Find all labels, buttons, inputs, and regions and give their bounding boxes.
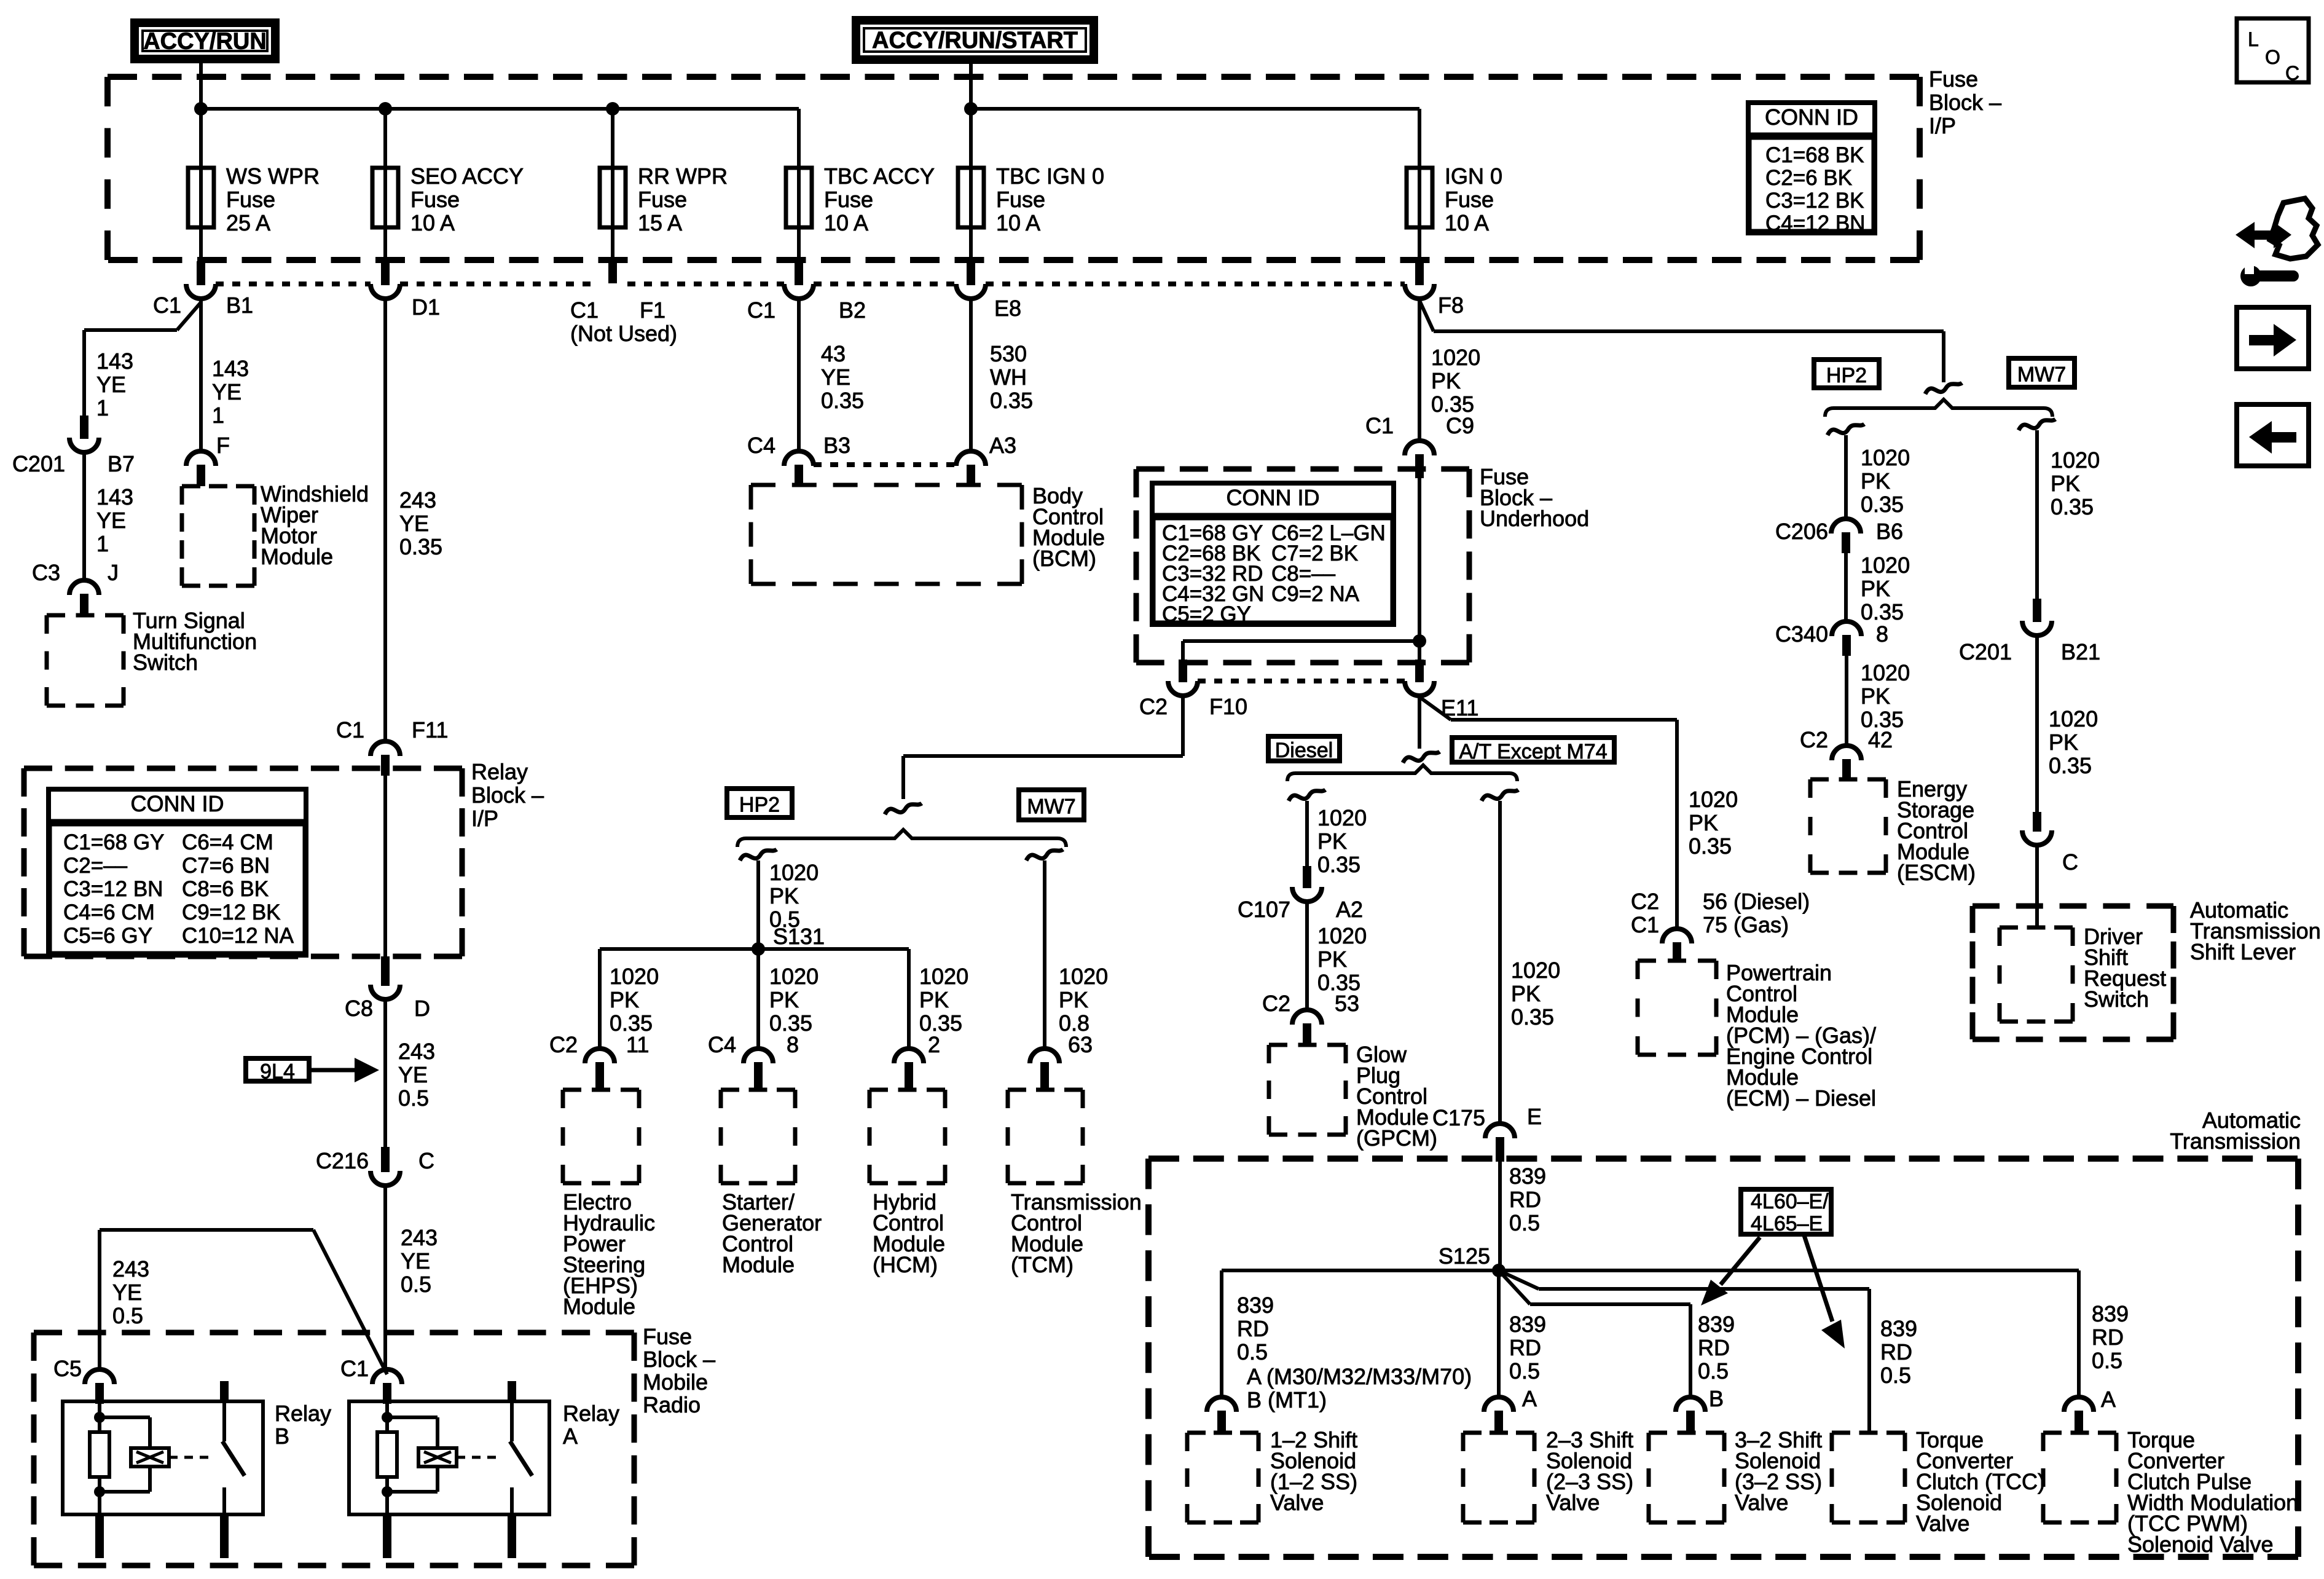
svg-text:C1: C1 [153, 293, 181, 318]
label Automatic Transmission Shift Lever [2190, 897, 2321, 964]
svg-text:C340: C340 [1775, 621, 1828, 647]
connector F (wiper motor module) [186, 433, 230, 486]
connector C201/B7 [12, 415, 135, 476]
svg-text:243: 243 [399, 487, 436, 513]
option label box MW7 (right) [2009, 358, 2075, 387]
svg-text:Fuse: Fuse [410, 187, 460, 212]
option splice brace (right) [1825, 400, 2052, 417]
connector C4/B3 (BCM) [747, 433, 850, 486]
wire 143 YE 1 below C201 [84, 452, 133, 580]
module Body Control Module BCM [751, 483, 1105, 584]
wire 1020 PK 0.35 to EHPS [600, 949, 659, 1049]
svg-text:B21: B21 [2061, 639, 2100, 664]
reference tag 4L60-E/4L65-E [1741, 1189, 1831, 1235]
svg-text:RD: RD [1509, 1335, 1541, 1360]
wire label 243 YE 0.5 (C5 branch) [112, 1256, 149, 1328]
svg-text:Solenoid Valve: Solenoid Valve [2127, 1532, 2274, 1557]
wire S125 to 2-3 shift solenoid [1499, 1270, 1546, 1411]
junction node on bus at RR WPR [606, 102, 619, 116]
page reference LOC box [2237, 18, 2309, 84]
svg-text:YE: YE [401, 1248, 430, 1274]
fuse RR WPR 15 A [600, 109, 728, 261]
svg-text:839: 839 [1698, 1312, 1735, 1337]
svg-text:C1: C1 [336, 717, 364, 742]
svg-text:C: C [418, 1148, 434, 1173]
connector B (3-2 shift solenoid) [1676, 1397, 1705, 1433]
svg-text:1020: 1020 [1861, 660, 1910, 685]
wire 1020 PK 0.35 to starter generator module [758, 949, 819, 1049]
svg-text:SEO ACCY: SEO ACCY [410, 163, 524, 189]
svg-text:B3: B3 [823, 433, 850, 458]
svg-text:HP2: HP2 [1826, 364, 1867, 387]
svg-text:9L4: 9L4 [260, 1060, 295, 1084]
wire 530 WH 0.35 from E8 [971, 299, 1033, 451]
svg-text:A: A [1522, 1386, 1537, 1411]
wire S131 horizontal [600, 947, 909, 951]
svg-text:1020: 1020 [2049, 706, 2098, 731]
svg-text:C2=––: C2=–– [63, 854, 128, 878]
wire break AT branch [1482, 790, 1518, 801]
svg-text:F: F [216, 433, 230, 458]
svg-text:YE: YE [112, 1280, 142, 1305]
svg-text:0.35: 0.35 [399, 534, 442, 559]
svg-text:Valve: Valve [1546, 1490, 1600, 1515]
wire label 143 YE 1 (B1 wire) [212, 356, 249, 428]
svg-text:Relay: Relay [471, 759, 528, 784]
svg-text:839: 839 [1237, 1293, 1274, 1318]
svg-text:53: 53 [1335, 991, 1359, 1016]
label Fuse Block - I/P [1929, 66, 2001, 138]
svg-text:1020: 1020 [1317, 923, 1367, 948]
svg-text:F1: F1 [640, 297, 665, 323]
fuse TBC IGN 0 10 A [958, 109, 1104, 261]
svg-text:I/P: I/P [471, 806, 498, 831]
svg-text:0.5: 0.5 [1509, 1210, 1540, 1235]
svg-text:0.35: 0.35 [1317, 852, 1360, 877]
svg-text:Block –: Block – [643, 1347, 715, 1372]
svg-text:C9=12 BK: C9=12 BK [182, 900, 281, 924]
svg-text:C2: C2 [1139, 694, 1168, 719]
svg-text:0.35: 0.35 [1861, 492, 1904, 517]
svg-text:C2: C2 [1800, 727, 1828, 752]
svg-text:1020: 1020 [1059, 964, 1108, 989]
svg-text:RR WPR: RR WPR [638, 163, 728, 189]
svg-text:TBC IGN 0: TBC IGN 0 [996, 163, 1104, 189]
label Fuse Block - Underhood [1480, 464, 1589, 531]
wire 1020 PK 0.35 to C206 [1846, 435, 1910, 520]
option splice brace (diesel / AT) [1287, 765, 1517, 781]
svg-text:Diesel: Diesel [1275, 739, 1333, 762]
svg-text:C8: C8 [345, 996, 373, 1021]
wire inside underhood block [1418, 478, 1421, 660]
svg-text:MW7: MW7 [2017, 363, 2066, 387]
wire break HP2 branch (middle) [740, 849, 777, 860]
svg-text:0.35: 0.35 [1511, 1004, 1554, 1030]
svg-text:WS WPR: WS WPR [226, 163, 320, 189]
svg-text:(GPCM): (GPCM) [1356, 1125, 1437, 1151]
svg-text:(ESCM): (ESCM) [1897, 860, 1976, 885]
svg-text:75 (Gas): 75 (Gas) [1703, 912, 1789, 937]
connector C216/C [316, 1147, 434, 1186]
wire F8 branch to HP2/MW7 splice [1419, 301, 1944, 382]
connector C175/E [1432, 1104, 1542, 1162]
splice S131 [752, 924, 825, 956]
svg-text:C9: C9 [1446, 413, 1474, 438]
svg-text:YE: YE [96, 508, 126, 533]
svg-text:Switch: Switch [133, 650, 198, 675]
switch Driver Shift Request Switch box [2000, 924, 2166, 1022]
svg-text:Block –: Block – [1929, 90, 2001, 115]
svg-text:(Not Used): (Not Used) [570, 321, 677, 346]
svg-text:25 A: 25 A [226, 210, 270, 235]
svg-text:0.35: 0.35 [1861, 599, 1904, 624]
svg-text:C201: C201 [12, 451, 65, 476]
svg-text:1020: 1020 [1861, 553, 1910, 578]
svg-text:0.35: 0.35 [990, 388, 1033, 413]
svg-text:C3: C3 [32, 560, 60, 585]
svg-text:RD: RD [1509, 1187, 1541, 1212]
svg-text:ACCY/RUN: ACCY/RUN [143, 29, 267, 55]
connector D1 (SEO ACCY output) [371, 261, 440, 320]
svg-text:839: 839 [1509, 1312, 1546, 1337]
svg-text:C7=6 BN: C7=6 BN [182, 854, 270, 878]
svg-text:1020: 1020 [2051, 447, 2100, 473]
label Automatic Transmission [2170, 1108, 2301, 1154]
svg-text:RD: RD [1237, 1316, 1269, 1341]
svg-text:0.5: 0.5 [1880, 1363, 1911, 1388]
wire 1020 PK 0.35 to C [2037, 636, 2098, 812]
connector C5 (relay B) [53, 1356, 114, 1404]
module Energy Storage Control Module ESCM [1810, 776, 1976, 885]
svg-text:Valve: Valve [1916, 1511, 1969, 1536]
svg-text:C2: C2 [1262, 991, 1290, 1016]
svg-text:Relay: Relay [275, 1401, 331, 1426]
module Transmission Control Module TCM [1008, 1090, 1142, 1277]
svg-text:Module: Module [261, 544, 333, 569]
svg-text:63: 63 [1068, 1032, 1093, 1057]
svg-text:243: 243 [112, 1256, 149, 1282]
module Turn Signal Multifunction Switch [47, 608, 257, 706]
svg-text:C216: C216 [316, 1148, 369, 1173]
svg-text:C175: C175 [1432, 1105, 1485, 1130]
module Powertrain Control Module PCM/ECM [1638, 960, 1876, 1111]
svg-text:C4: C4 [747, 433, 775, 458]
svg-text:E: E [1527, 1104, 1542, 1129]
CONN ID table (fuse block I/P) [1746, 103, 1877, 235]
option label box Diesel [1268, 736, 1340, 762]
wire 1020 PK 0.8 to TCM [1045, 860, 1108, 1049]
svg-text:C5=6 GY: C5=6 GY [63, 924, 152, 948]
option label box HP2 (right) [1814, 360, 1879, 388]
svg-text:1020: 1020 [1317, 805, 1367, 830]
svg-text:0.35: 0.35 [2049, 753, 2092, 778]
wire 1020 PK 0.35 to C107 [1307, 801, 1367, 877]
connector E8 (TBC IGN 0 output) [956, 261, 1021, 321]
svg-text:530: 530 [990, 341, 1027, 366]
svg-text:YE: YE [821, 364, 850, 390]
wire branch to relay B C5 [100, 1230, 387, 1374]
svg-text:B6: B6 [1876, 519, 1903, 544]
connector C340/8 [1775, 621, 1888, 656]
svg-text:Valve: Valve [1735, 1490, 1788, 1515]
svg-text:PK: PK [1861, 683, 1890, 709]
svg-text:8: 8 [787, 1032, 799, 1057]
connector E11 (underhood output) [1405, 660, 1478, 720]
svg-text:MW7: MW7 [1027, 795, 1075, 819]
connector C206/B6 [1775, 519, 1903, 553]
svg-text:C9=2 NA: C9=2 NA [1271, 582, 1360, 606]
svg-text:IGN 0: IGN 0 [1445, 163, 1502, 189]
CONN ID table (relay block I/P) [46, 789, 308, 955]
wire F10 to option splice [903, 696, 1183, 799]
connector A/B (1-2 shift solenoid) [1207, 1397, 1236, 1433]
wire 243 YE 0.5 from C216 to relay A C1 [385, 1186, 438, 1371]
junction node on bus at SEO ACCY [379, 102, 392, 116]
wire label 1020 PK 0.35 (PCM branch) [1689, 787, 1738, 859]
fuse block I/P dashed box [108, 77, 1920, 260]
svg-text:Module: Module [722, 1252, 795, 1277]
wire E11 branch to PCM [1419, 697, 1677, 929]
connector C4/8 (starter generator control module) [708, 1032, 799, 1090]
label Relay Block - I/P [471, 759, 544, 831]
svg-text:C201: C201 [1959, 639, 2012, 664]
svg-text:HP2: HP2 [739, 793, 780, 817]
svg-text:1020: 1020 [1689, 787, 1738, 812]
svg-text:1020: 1020 [769, 860, 819, 885]
svg-text:C4=6 CM: C4=6 CM [63, 900, 155, 924]
svg-text:B7: B7 [108, 451, 135, 476]
wire break above right splice [1925, 383, 1962, 394]
connector C3/J [32, 560, 119, 615]
connector C1 (relay A) [340, 1356, 402, 1404]
svg-text:B: B [1709, 1386, 1724, 1411]
svg-text:Fuse: Fuse [226, 187, 275, 212]
wire S125 to TCC PWM solenoid [1499, 1270, 2129, 1412]
svg-text:A/T Except M74: A/T Except M74 [1459, 740, 1607, 763]
svg-text:C4=12 BN: C4=12 BN [1765, 211, 1865, 235]
svg-text:PK: PK [769, 883, 799, 908]
fuse block underhood dashed box [1136, 469, 1469, 663]
svg-text:A2: A2 [1336, 897, 1363, 922]
svg-text:1: 1 [96, 395, 109, 420]
dotted line between B3 and A3 [814, 462, 956, 467]
svg-text:F8: F8 [1438, 293, 1464, 318]
wire break MW7 branch (middle) [1026, 849, 1063, 860]
module 3-2 Shift Solenoid Valve [1649, 1427, 1822, 1522]
connector C8/D (relay block output) [345, 956, 430, 1021]
svg-text:PK: PK [1317, 947, 1347, 972]
svg-text:A (M30/M32/M33/M70): A (M30/M32/M33/M70) [1247, 1364, 1472, 1389]
connector C (shift lever) [2022, 812, 2078, 875]
junction node on bus at WS WPR [194, 102, 208, 116]
svg-text:E8: E8 [994, 296, 1021, 321]
module TCC PWM Solenoid Valve [2043, 1427, 2298, 1557]
power feed box ACCY/RUN/START [856, 20, 1094, 60]
svg-text:1020: 1020 [1511, 958, 1560, 983]
svg-text:RD: RD [1698, 1335, 1730, 1360]
svg-text:C10=12 NA: C10=12 NA [182, 924, 294, 948]
automatic transmission shift lever dashed box [1973, 906, 2173, 1039]
svg-text:0.5: 0.5 [1698, 1358, 1729, 1384]
svg-text:1: 1 [212, 403, 224, 428]
connector 2 (HCM) [894, 1032, 940, 1090]
svg-text:8: 8 [1876, 621, 1888, 647]
module 1-2 Shift Solenoid Valve [1187, 1427, 1357, 1522]
svg-text:1020: 1020 [1431, 345, 1480, 370]
svg-text:0.5: 0.5 [398, 1085, 429, 1111]
svg-text:143: 143 [96, 348, 133, 374]
diagnostic wrench icon [2236, 199, 2318, 286]
svg-text:Transmission: Transmission [2170, 1128, 2301, 1154]
svg-text:PK: PK [1317, 829, 1347, 854]
svg-text:PK: PK [1431, 368, 1461, 393]
module 2-3 Shift Solenoid Valve [1463, 1427, 1633, 1522]
svg-text:J: J [108, 560, 119, 585]
wire 143 YE from B1 down to F [199, 299, 203, 451]
svg-text:0.35: 0.35 [821, 388, 864, 413]
svg-text:C2=6 BK: C2=6 BK [1765, 166, 1852, 190]
svg-text:1020: 1020 [1861, 445, 1910, 470]
power feed box ACCY/RUN [135, 23, 275, 59]
svg-text:B: B [275, 1423, 289, 1449]
svg-text:839: 839 [1880, 1316, 1917, 1341]
svg-text:B (MT1): B (MT1) [1247, 1387, 1327, 1412]
option label box MW7 (middle) [1019, 790, 1084, 820]
svg-text:PK: PK [1689, 810, 1718, 835]
svg-text:C1=68 GY: C1=68 GY [63, 830, 164, 854]
arrow 4L60 to TCC branch [1804, 1235, 1845, 1349]
svg-text:D1: D1 [412, 294, 440, 320]
svg-text:PK: PK [1861, 468, 1890, 494]
svg-text:Relay: Relay [563, 1401, 619, 1426]
CONN ID table (fuse block underhood) [1150, 483, 1396, 626]
wire 43 YE 0.35 from B2 [799, 299, 864, 451]
svg-text:O: O [2265, 46, 2280, 68]
svg-text:(TCM): (TCM) [1011, 1252, 1074, 1277]
connector C1/F11 (relay block I/P) [336, 717, 448, 776]
svg-text:C1: C1 [340, 1356, 369, 1381]
svg-text:ACCY/RUN/START: ACCY/RUN/START [872, 28, 1078, 53]
svg-text:F10: F10 [1209, 694, 1247, 719]
wire break above diesel splice [1403, 752, 1440, 763]
wire 1020 PK 0.35 to GPCM [1307, 902, 1367, 1010]
svg-text:15 A: 15 A [638, 210, 682, 235]
svg-text:143: 143 [212, 356, 249, 381]
svg-text:C: C [2062, 849, 2078, 875]
svg-text:RD: RD [1880, 1339, 1912, 1364]
wire E11 down to option splice [1418, 696, 1421, 749]
svg-text:YE: YE [399, 511, 429, 536]
module Starter/Generator Control Module [721, 1090, 822, 1277]
svg-text:11: 11 [626, 1032, 649, 1057]
svg-text:WH: WH [990, 364, 1027, 390]
backward page arrow box [2237, 404, 2309, 466]
svg-text:F11: F11 [412, 717, 448, 742]
svg-text:Fuse: Fuse [824, 187, 873, 212]
svg-text:Underhood: Underhood [1480, 506, 1589, 531]
wire 839 RD 0.5 from C175 to S125 [1500, 1162, 1546, 1270]
svg-text:4L65–E: 4L65–E [1751, 1212, 1823, 1235]
wire S125 to 1-2 shift solenoid [1222, 1270, 1499, 1412]
connector 63 (TCM) [1030, 1032, 1093, 1090]
svg-text:42: 42 [1868, 727, 1893, 752]
svg-text:0.5: 0.5 [401, 1272, 431, 1297]
svg-text:PK: PK [1059, 987, 1088, 1012]
svg-text:C2: C2 [549, 1032, 578, 1057]
svg-text:CONN ID: CONN ID [1765, 104, 1858, 130]
svg-text:L: L [2248, 28, 2259, 50]
svg-text:B1: B1 [226, 293, 253, 318]
wire break symbol above middle splice [885, 803, 922, 814]
forward page arrow box [2237, 307, 2309, 369]
svg-text:Fuse: Fuse [1929, 66, 1978, 92]
svg-text:0.5: 0.5 [1237, 1339, 1268, 1364]
svg-text:A3: A3 [989, 433, 1016, 458]
wire 1020 PK 0.35 from F8 to C9 [1419, 299, 1480, 442]
svg-text:4L60–E/: 4L60–E/ [1751, 1190, 1829, 1213]
svg-text:(BCM): (BCM) [1032, 546, 1096, 571]
svg-text:YE: YE [96, 372, 126, 397]
wire break HP2 branch (right) [1827, 424, 1864, 435]
svg-text:Fuse: Fuse [1445, 187, 1494, 212]
svg-text:C1: C1 [747, 297, 775, 323]
connector C107/A2 [1238, 866, 1363, 922]
wire branch B1 to C201 (diagonal) [84, 302, 201, 415]
svg-text:Mobile: Mobile [643, 1369, 708, 1395]
wire ACCY/RUN/START to bus [969, 64, 973, 109]
svg-text:C8=6 BK: C8=6 BK [182, 877, 269, 901]
connector C1/B2 (TBC ACCY output) [747, 261, 866, 323]
svg-text:0.35: 0.35 [2051, 494, 2094, 519]
splice S125 [1439, 1243, 1505, 1277]
svg-text:C1: C1 [1631, 912, 1659, 937]
svg-text:PK: PK [919, 987, 949, 1012]
svg-text:C6=4 CM: C6=4 CM [182, 830, 273, 854]
svg-text:C206: C206 [1775, 519, 1828, 544]
svg-text:(ECM) – Diesel: (ECM) – Diesel [1726, 1085, 1876, 1111]
svg-text:C4: C4 [708, 1032, 736, 1057]
wire S125 to TCC solenoid valve [1499, 1270, 1917, 1433]
svg-text:PK: PK [769, 987, 799, 1012]
svg-text:(HCM): (HCM) [873, 1252, 938, 1277]
svg-text:839: 839 [1509, 1164, 1546, 1189]
connector F8 (IGN 0 output) [1405, 261, 1464, 318]
svg-text:56 (Diesel): 56 (Diesel) [1703, 889, 1810, 914]
bus wire ACCY/RUN/START branch [971, 109, 1419, 168]
svg-text:C5: C5 [53, 1356, 82, 1381]
option label box A/T Except M74 [1452, 738, 1614, 763]
fuse SEO ACCY 10 A [372, 109, 524, 261]
svg-text:C3=12 BK: C3=12 BK [1765, 189, 1864, 213]
wire break diesel branch [1289, 790, 1325, 801]
wire ACCY/RUN to bus [199, 63, 203, 109]
junction node on bus at TBC IGN 0 [964, 102, 978, 116]
relay B (mobile radio fuse block) [63, 1381, 331, 1558]
wire 1020 PK 0.35 to C340 [1846, 553, 1910, 624]
module Electro Hydraulic Power Steering EHPS [563, 1090, 655, 1319]
svg-text:C3=12 BN: C3=12 BN [63, 877, 163, 901]
label Fuse Block - Mobile Radio [643, 1324, 715, 1417]
automatic transmission dashed box [1148, 1159, 2298, 1557]
module Hybrid Control Module HCM [870, 1090, 945, 1277]
svg-text:RD: RD [2092, 1325, 2124, 1350]
svg-text:S125: S125 [1439, 1243, 1490, 1269]
svg-text:10 A: 10 A [1445, 210, 1489, 235]
svg-text:C1=68 BK: C1=68 BK [1765, 143, 1864, 167]
svg-text:1020: 1020 [610, 964, 659, 989]
svg-text:Radio: Radio [643, 1392, 701, 1417]
option label box HP2 (middle) [727, 789, 792, 817]
